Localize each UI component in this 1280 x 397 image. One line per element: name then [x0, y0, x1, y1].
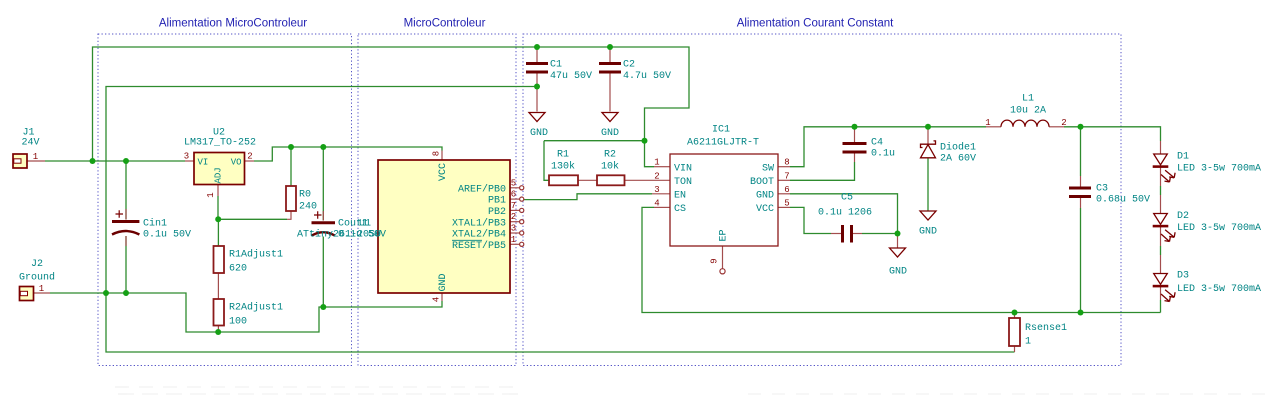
- svg-text:BOOT: BOOT: [750, 177, 774, 188]
- svg-text:C4: C4: [871, 138, 883, 149]
- svg-text:Ground: Ground: [19, 272, 55, 284]
- svg-text:U1: U1: [359, 219, 371, 230]
- svg-text:PB1: PB1: [488, 196, 506, 207]
- svg-text:8: 8: [432, 151, 442, 156]
- svg-text:3: 3: [654, 185, 659, 195]
- svg-text:4: 4: [654, 198, 659, 208]
- svg-text:2: 2: [1061, 118, 1066, 128]
- svg-text:Diode1: Diode1: [940, 142, 976, 154]
- svg-text:0.1u 1206: 0.1u 1206: [818, 208, 872, 219]
- svg-text:47u 50V: 47u 50V: [550, 71, 592, 82]
- svg-text:3: 3: [511, 224, 516, 234]
- svg-text:IC1: IC1: [712, 125, 730, 136]
- svg-text:240: 240: [299, 202, 317, 213]
- svg-text:7: 7: [784, 171, 789, 181]
- svg-text:XTAL1/PB3: XTAL1/PB3: [452, 217, 506, 229]
- svg-text:GND: GND: [530, 128, 548, 139]
- svg-text:EN: EN: [674, 190, 686, 201]
- svg-text:R2: R2: [604, 150, 616, 161]
- svg-text:PB2: PB2: [488, 207, 506, 218]
- svg-text:2: 2: [247, 152, 252, 162]
- svg-text:3: 3: [184, 152, 189, 162]
- svg-text:L1: L1: [1022, 94, 1034, 105]
- svg-text:9: 9: [710, 258, 720, 263]
- svg-text:R1: R1: [557, 150, 569, 161]
- svg-text:LM317_TO-252: LM317_TO-252: [184, 138, 256, 149]
- svg-text:6: 6: [784, 185, 789, 195]
- svg-text:4: 4: [432, 297, 442, 302]
- svg-text:1: 1: [985, 118, 990, 128]
- svg-text:C3: C3: [1096, 184, 1108, 195]
- svg-text:LED 3-5w 700mA: LED 3-5w 700mA: [1177, 284, 1261, 295]
- svg-text:0.68u 50V: 0.68u 50V: [1096, 195, 1150, 206]
- svg-text:1: 1: [39, 284, 44, 294]
- svg-text:VCC: VCC: [756, 204, 774, 215]
- svg-text:ATtiny261-20SU: ATtiny261-20SU: [297, 229, 381, 241]
- svg-text:VIN: VIN: [674, 163, 692, 174]
- svg-text:2A 60V: 2A 60V: [940, 154, 976, 165]
- svg-text:EP: EP: [719, 229, 730, 241]
- svg-text:D1: D1: [1177, 151, 1189, 162]
- svg-text:C5: C5: [841, 193, 853, 204]
- svg-text:VO: VO: [231, 157, 242, 167]
- svg-text:2: 2: [511, 212, 516, 222]
- svg-text:ADJ: ADJ: [214, 167, 224, 183]
- svg-text:100: 100: [229, 316, 247, 327]
- svg-text:GND: GND: [919, 227, 937, 238]
- svg-text:0.1u 50V: 0.1u 50V: [143, 230, 191, 241]
- svg-text:R0: R0: [299, 190, 311, 201]
- svg-text:SW: SW: [762, 163, 774, 174]
- svg-text:620: 620: [229, 264, 247, 275]
- svg-text:MicroControleur: MicroControleur: [404, 18, 486, 30]
- svg-text:8: 8: [784, 158, 789, 168]
- svg-text:Alimentation Courant Constant: Alimentation Courant Constant: [737, 18, 894, 30]
- svg-text:0.1u: 0.1u: [871, 149, 895, 160]
- svg-text:1: 1: [511, 235, 516, 245]
- svg-text:LED 3-5w 700mA: LED 3-5w 700mA: [1177, 223, 1261, 234]
- svg-text:1: 1: [206, 192, 216, 197]
- svg-text:VI: VI: [198, 157, 209, 167]
- svg-text:Rsense1: Rsense1: [1025, 323, 1067, 334]
- svg-text:24V: 24V: [21, 138, 39, 149]
- svg-text:7: 7: [511, 201, 516, 211]
- svg-text:LED 3-5w 700mA: LED 3-5w 700mA: [1177, 164, 1261, 175]
- svg-text:GND: GND: [889, 267, 907, 278]
- svg-text:2: 2: [654, 171, 659, 181]
- svg-text:J2: J2: [31, 259, 43, 270]
- svg-text:AREF/PB0: AREF/PB0: [458, 183, 506, 195]
- svg-text:1: 1: [33, 152, 38, 162]
- svg-text:RESET/PB5: RESET/PB5: [452, 240, 506, 252]
- svg-text:10k: 10k: [601, 161, 619, 173]
- svg-text:A6211GLJTR-T: A6211GLJTR-T: [687, 138, 759, 149]
- svg-text:D2: D2: [1177, 211, 1189, 222]
- svg-text:C2: C2: [623, 60, 635, 71]
- svg-text:130k: 130k: [551, 161, 575, 173]
- svg-text:1: 1: [654, 158, 659, 168]
- svg-text:R1Adjust1: R1Adjust1: [229, 249, 283, 261]
- svg-text:5: 5: [784, 198, 789, 208]
- svg-text:XTAL2/PB4: XTAL2/PB4: [452, 229, 506, 241]
- svg-text:R2Adjust1: R2Adjust1: [229, 302, 283, 314]
- svg-text:GND: GND: [756, 190, 774, 201]
- svg-text:C1: C1: [550, 60, 562, 71]
- svg-text:D3: D3: [1177, 270, 1189, 281]
- svg-text:4.7u 50V: 4.7u 50V: [623, 71, 671, 82]
- svg-text:GND: GND: [438, 273, 449, 291]
- svg-text:Alimentation MicroControleur: Alimentation MicroControleur: [159, 18, 307, 30]
- svg-text:6: 6: [511, 190, 516, 200]
- svg-text:CS: CS: [674, 204, 686, 215]
- svg-text:GND: GND: [601, 128, 619, 139]
- svg-text:TON: TON: [674, 177, 692, 188]
- svg-text:Cin1: Cin1: [143, 218, 167, 230]
- svg-text:1: 1: [1025, 337, 1031, 348]
- svg-text:VCC: VCC: [438, 163, 449, 181]
- svg-text:10u 2A: 10u 2A: [1010, 106, 1046, 117]
- svg-text:5: 5: [511, 178, 516, 188]
